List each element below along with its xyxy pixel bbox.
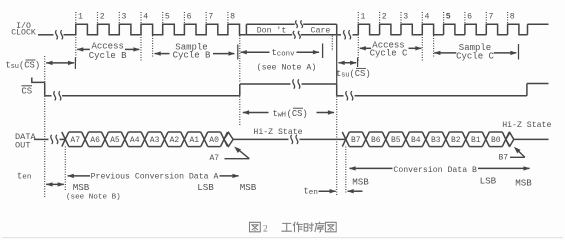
label Conversion Data B with arrows xyxy=(349,165,530,175)
arrows for Sample Cycle C xyxy=(434,51,517,55)
svg-text:en: en xyxy=(22,174,31,182)
svg-text:Cycle B: Cycle B xyxy=(89,51,127,61)
arrow ten right measure xyxy=(319,189,363,193)
dotted reference line at start of B7 cell xyxy=(345,147,347,194)
svg-text:(see Note B): (see Note B) xyxy=(66,194,121,202)
break marks across Don't Care band xyxy=(293,20,302,38)
wire Don't Care band bottom right part xyxy=(301,34,337,36)
bus data labels A7-A0 xyxy=(70,136,219,145)
svg-text:A4: A4 xyxy=(130,136,140,145)
svg-text:3: 3 xyxy=(122,13,127,22)
svg-text:conv: conv xyxy=(277,51,295,59)
arrows for Access Cycle C xyxy=(359,46,422,50)
svg-text:3: 3 xyxy=(403,13,408,22)
wire CS high segment xyxy=(240,83,337,85)
svg-text:B5: B5 xyxy=(391,136,401,145)
wire CS falling edge 1 xyxy=(44,82,46,95)
wire CS final high segment xyxy=(527,83,549,85)
svg-text:8: 8 xyxy=(510,13,515,22)
wire Don't Care band right edge xyxy=(336,24,338,35)
wire CS rising edge 2 xyxy=(526,84,528,96)
label Previous Conversion Data A with arrows xyxy=(67,172,239,182)
svg-text:su: su xyxy=(341,71,349,79)
clock edge numbers 1-8 (cycle C) xyxy=(361,13,515,22)
tick bar right of tsu arrow xyxy=(74,58,76,70)
svg-text:A6: A6 xyxy=(90,136,100,145)
wire clock low segment before cycle C xyxy=(337,34,359,36)
svg-text:6: 6 xyxy=(467,13,472,22)
svg-text:2: 2 xyxy=(382,13,387,22)
label Don 't Care xyxy=(257,25,331,35)
svg-text:Cycle B: Cycle B xyxy=(173,51,211,61)
svg-text:1: 1 xyxy=(78,13,83,22)
arrow tsu(CS) right measure xyxy=(338,61,356,65)
diamond transition after B0 xyxy=(506,133,514,147)
label MSB far right xyxy=(515,177,532,188)
break marks on DATA OUT entry xyxy=(51,135,58,144)
svg-text:su: su xyxy=(11,63,19,71)
arrow tsu(CS) left measure xyxy=(46,61,75,65)
svg-text:2: 2 xyxy=(100,13,105,22)
wire CS rising edge 1 xyxy=(239,84,241,96)
dotted reference line at CS rising edge 1 xyxy=(239,36,241,127)
svg-text:Conversion Data B: Conversion Data B xyxy=(393,165,477,175)
svg-text:A2: A2 xyxy=(170,136,180,145)
wire Don't Care band top xyxy=(246,23,294,25)
label I/O CLOCK xyxy=(11,21,36,38)
wire I/O CLOCK entry segment xyxy=(38,34,54,36)
label (see Note A) xyxy=(257,62,317,72)
wire Don't Care band rising edge xyxy=(245,24,247,35)
label (see Note B) xyxy=(66,194,121,202)
diamond transition after A0 xyxy=(224,132,233,146)
wire Hi-Z line between data A and data B xyxy=(233,138,346,140)
label MSB left xyxy=(73,182,90,193)
svg-text:OUT: OUT xyxy=(15,141,30,151)
svg-text:1: 1 xyxy=(361,13,366,22)
svg-text:(CS): (CS) xyxy=(287,109,308,119)
svg-text:B7: B7 xyxy=(351,136,361,145)
dotted reference line at CS falling edge 2 xyxy=(336,36,338,197)
wire CS falling edge 2 xyxy=(336,84,338,96)
dotted reference lines at clock edges (cycle B) xyxy=(76,12,228,61)
svg-text:LSB: LSB xyxy=(197,182,214,193)
clock edge numbers 1-8 (cycle B) xyxy=(78,13,235,22)
label Hi-Z State left xyxy=(253,127,302,137)
bus cell top/bottom rails A7-A0 xyxy=(69,132,221,147)
label tsu(CS) left xyxy=(6,60,41,71)
caption Figure 2 working timing diagram xyxy=(250,222,337,234)
label MSB mid xyxy=(240,182,257,193)
svg-text:6: 6 xyxy=(187,13,192,22)
callout B7 pointing at diamond xyxy=(499,147,525,163)
break marks on clock line before cycle C xyxy=(344,30,351,39)
svg-text:A5: A5 xyxy=(110,136,120,145)
svg-text:B0: B0 xyxy=(491,136,501,145)
svg-text:5: 5 xyxy=(165,13,170,22)
svg-text:MSB: MSB xyxy=(240,182,257,193)
bus transition crossings A7-A0 xyxy=(62,132,228,147)
svg-text:wH: wH xyxy=(278,111,286,119)
break marks on I/O CLOCK entry xyxy=(56,30,63,39)
svg-text:CLOCK: CLOCK xyxy=(11,29,36,38)
svg-text:Hi-Z State: Hi-Z State xyxy=(253,127,302,137)
break marks on CS low segment 2 xyxy=(346,91,353,100)
label MSB right xyxy=(352,176,369,187)
svg-text:A7: A7 xyxy=(210,154,220,163)
break marks on Hi-Z line xyxy=(291,135,298,144)
tick bar right of tsu arrow C xyxy=(357,58,359,68)
label Sample Cycle C xyxy=(456,43,494,61)
svg-text:4: 4 xyxy=(143,13,148,22)
wire clock final high segment xyxy=(528,24,549,35)
faint scan line at bottom edge xyxy=(2,237,563,239)
svg-text:B2: B2 xyxy=(451,136,461,145)
svg-text:Care: Care xyxy=(311,26,331,35)
svg-text:Cycle C: Cycle C xyxy=(370,49,408,59)
tick bar at end of Sample Cycle C xyxy=(518,44,520,60)
svg-text:CS: CS xyxy=(21,86,32,96)
break marks on CS high segment xyxy=(293,79,300,88)
dotted reference line at CS falling edge 1 xyxy=(44,56,46,197)
arrows for Sample Cycle B xyxy=(154,51,235,55)
wire CS low segment 2 xyxy=(337,95,527,97)
svg-text:2: 2 xyxy=(263,224,268,234)
break marks on CS low segment 1 xyxy=(54,91,61,100)
callout A7 pointing at diamond xyxy=(210,147,250,164)
wire Don't Care band top right part xyxy=(303,23,337,25)
bus cell top/bottom rails B7-B0 xyxy=(349,132,502,147)
svg-text:MSB: MSB xyxy=(515,177,532,188)
dotted reference lines at clock edges (cycle C) xyxy=(358,12,507,61)
wire Don't Care band bottom xyxy=(246,34,292,36)
dotted line at falling edge of clock 4 (cycle C) xyxy=(433,36,435,58)
svg-text:A3: A3 xyxy=(150,136,160,145)
svg-text:5: 5 xyxy=(446,13,451,22)
svg-text:Don 't: Don 't xyxy=(257,25,287,35)
dotted reference line at start of A7 cell xyxy=(64,147,66,191)
label tconv with arrows xyxy=(240,48,319,59)
label DATA OUT xyxy=(15,132,36,150)
label Sample Cycle B xyxy=(173,43,211,61)
label Access Cycle C xyxy=(370,41,408,59)
label Access Cycle B xyxy=(89,41,127,61)
svg-text:A1: A1 xyxy=(189,136,199,145)
svg-text:Hi-Z State: Hi-Z State xyxy=(502,120,551,130)
arrow ten left measure xyxy=(46,182,64,186)
label LSB right xyxy=(480,176,497,187)
dotted line at falling edge of clock 4 (cycle B) xyxy=(152,36,154,58)
label ten left xyxy=(17,171,31,181)
svg-text:7: 7 xyxy=(489,13,494,22)
svg-text:Previous Conversion Data A: Previous Conversion Data A xyxy=(91,172,219,182)
svg-text:LSB: LSB xyxy=(480,176,497,187)
label ten right xyxy=(304,187,318,197)
svg-text:Access: Access xyxy=(91,41,123,51)
dotted stub below Care band xyxy=(331,36,333,51)
wire CS initial high stub xyxy=(32,78,45,83)
svg-text:(see Note A): (see Note A) xyxy=(257,62,317,72)
label LSB left xyxy=(197,182,214,193)
svg-text:A7: A7 xyxy=(70,136,80,145)
svg-text:en: en xyxy=(309,189,318,197)
wire DATA OUT entry segment xyxy=(34,138,65,140)
wire CS low segment 1 xyxy=(45,95,240,97)
svg-text:4: 4 xyxy=(425,13,430,22)
svg-text:(CS): (CS) xyxy=(350,69,371,79)
svg-text:B4: B4 xyxy=(411,136,421,145)
tick bar at end of tconv xyxy=(322,44,324,59)
svg-text:7: 7 xyxy=(208,13,213,22)
svg-text:B6: B6 xyxy=(371,136,381,145)
svg-text:8: 8 xyxy=(230,13,235,22)
wire I/O CLOCK pulses 1-8 (cycle C) xyxy=(358,24,527,35)
wire I/O CLOCK pulses 1-8 (cycle B) xyxy=(64,24,247,35)
svg-text:B1: B1 xyxy=(471,136,481,145)
label Hi-Z State right xyxy=(502,120,551,130)
svg-text:B3: B3 xyxy=(431,136,441,145)
label twH(CS) with arrows xyxy=(243,108,335,119)
label tsu(CS) right xyxy=(336,68,371,79)
svg-text:B7: B7 xyxy=(499,154,509,163)
svg-text:(CS): (CS) xyxy=(19,61,40,71)
label CS with overline xyxy=(21,86,32,97)
svg-text:MSB: MSB xyxy=(73,182,90,193)
arrows for Access Cycle B xyxy=(77,47,140,51)
bus transition crossings B7-B0 xyxy=(342,132,509,147)
bus data labels B7-B0 xyxy=(351,136,501,145)
wire Hi-Z line after data B xyxy=(514,138,549,140)
svg-text:Cycle C: Cycle C xyxy=(456,51,494,61)
tick bar at end of Sample Cycle B xyxy=(237,45,239,60)
svg-text:A0: A0 xyxy=(209,136,219,145)
svg-text:MSB: MSB xyxy=(352,176,369,187)
